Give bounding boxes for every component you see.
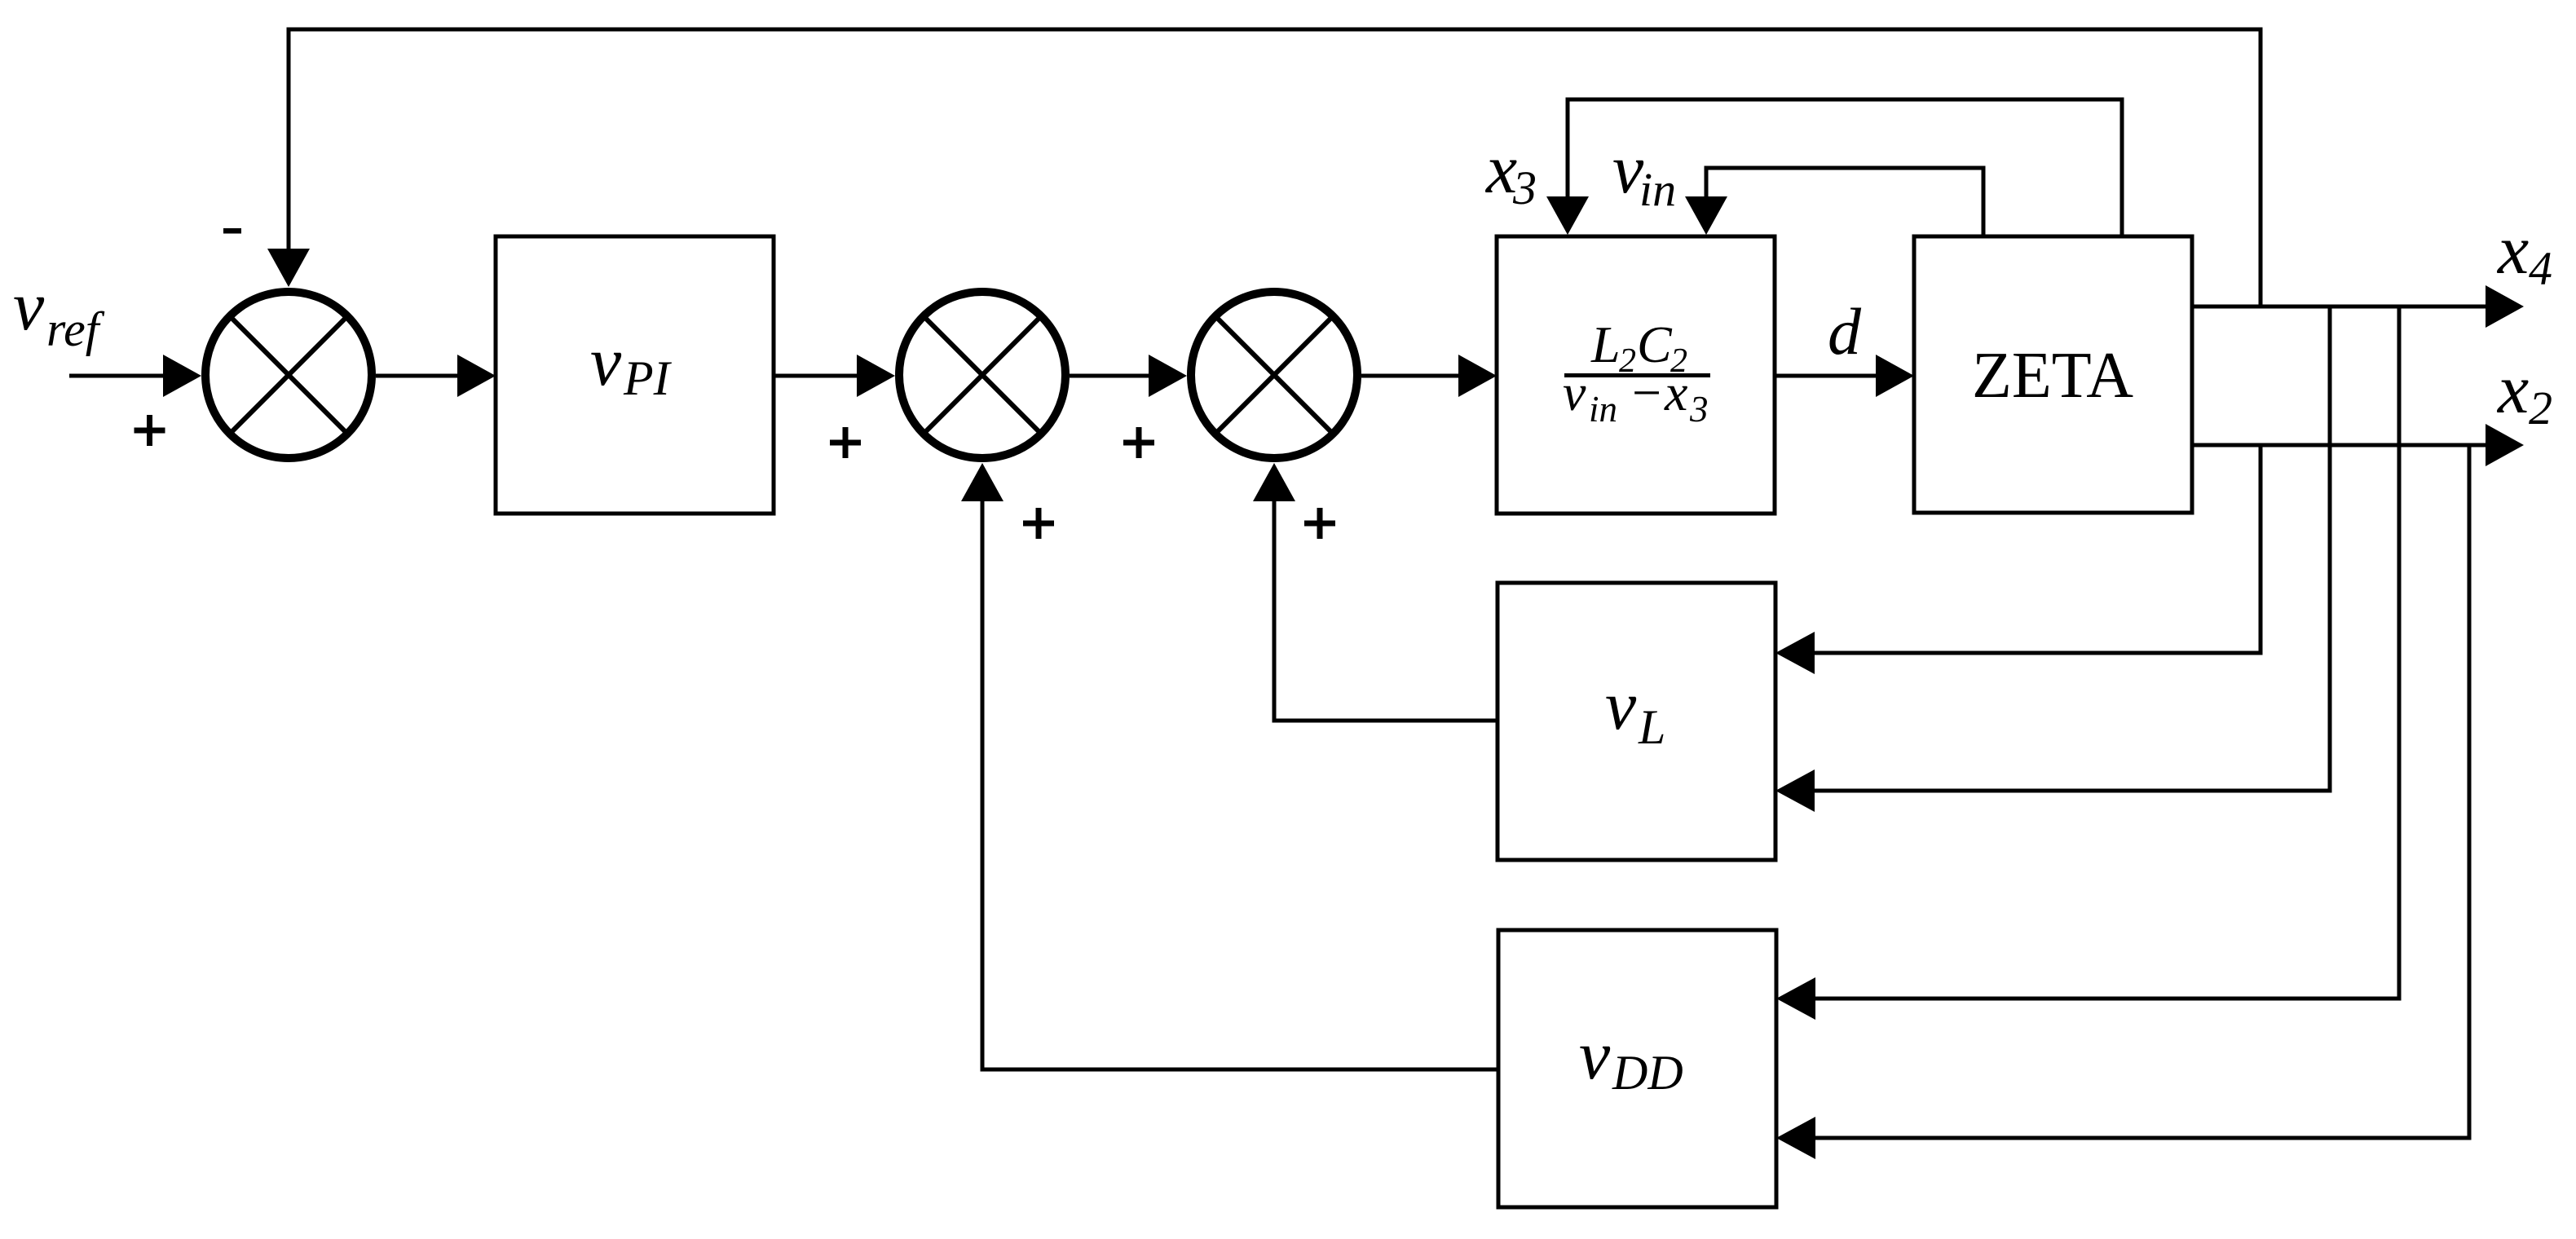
label x2 bbox=[2496, 350, 2552, 434]
svg-text:x: x bbox=[2496, 210, 2529, 289]
wire: vDD output to S2 bottom bbox=[982, 499, 1498, 1069]
svg-text:v: v bbox=[1605, 666, 1637, 744]
arrowhead into S3 bottom bbox=[1253, 463, 1295, 501]
wire: vL output to S3 bottom bbox=[1274, 499, 1498, 721]
wire: S1 to vPI bbox=[376, 374, 461, 378]
block L2C2/(vin-x3) bbox=[1497, 236, 1775, 514]
label vin-x3 denominator bbox=[1563, 364, 1709, 430]
label x3 bbox=[1484, 130, 1537, 214]
svg-text:3: 3 bbox=[1689, 389, 1709, 430]
svg-text:in: in bbox=[1589, 389, 1617, 430]
arrowhead x2 output bbox=[2486, 424, 2524, 466]
label L2C2 numerator bbox=[1590, 315, 1687, 380]
wire: L2C2 to ZETA (signal d) bbox=[1775, 374, 1880, 378]
svg-text:ref: ref bbox=[46, 302, 105, 356]
wire: vPI to S2 bbox=[774, 374, 861, 378]
summing junction S2 bbox=[899, 292, 1065, 458]
svg-text:3: 3 bbox=[1512, 161, 1537, 214]
svg-text:x: x bbox=[1664, 364, 1687, 421]
svg-text:L: L bbox=[1638, 700, 1665, 754]
wire: x2 tee down to vL upper input bbox=[1813, 445, 2261, 653]
arrowhead vin into L2C2 top bbox=[1685, 196, 1727, 235]
svg-text:−: − bbox=[1632, 364, 1661, 421]
arrowhead into vPI bbox=[457, 355, 496, 397]
arrowhead x4 output bbox=[2486, 285, 2524, 328]
arrowhead into vL lower input bbox=[1775, 769, 1815, 812]
label - at S1 feedback input bbox=[223, 228, 241, 234]
summing junction S3 bbox=[1191, 292, 1357, 458]
arrowhead into S2 bottom bbox=[961, 463, 1003, 501]
label x4 bbox=[2496, 210, 2552, 295]
arrowhead into ZETA bbox=[1876, 355, 1914, 397]
wire: x4 feedback top line into S1 bbox=[289, 29, 2261, 306]
arrowhead into S3 bbox=[1149, 355, 1187, 397]
label + at S2 left input bbox=[830, 427, 861, 458]
wire: x4 output bbox=[2192, 305, 2486, 309]
wire: x3 feedback from ZETA top to L2C2 top bbox=[1568, 99, 2122, 235]
label + at S3 bottom input bbox=[1304, 508, 1335, 539]
block vDD bbox=[1498, 930, 1776, 1207]
wire: vin feedback from ZETA top to L2C2 top bbox=[1706, 168, 1983, 235]
svg-text:x: x bbox=[2496, 350, 2529, 428]
label vDD bbox=[1579, 1016, 1683, 1100]
label vL bbox=[1605, 666, 1665, 754]
wire: v_ref input bbox=[69, 374, 167, 378]
block vPI bbox=[496, 236, 774, 514]
wire: S3 to L2C2 block bbox=[1361, 374, 1462, 378]
fraction bar bbox=[1564, 373, 1710, 377]
arrowhead x3 into L2C2 top bbox=[1546, 196, 1589, 235]
arrowhead into summing junction S1 bbox=[163, 355, 201, 397]
wire: S2 to S3 bbox=[1070, 374, 1153, 378]
arrowhead into vDD upper input bbox=[1776, 977, 1815, 1020]
svg-text:4: 4 bbox=[2529, 242, 2552, 295]
block vL bbox=[1498, 583, 1775, 860]
svg-text:in: in bbox=[1639, 163, 1676, 216]
label vin bbox=[1612, 130, 1676, 216]
svg-text:ZETA: ZETA bbox=[1972, 340, 2133, 412]
wire: x4 tee down to vDD upper input bbox=[1814, 306, 2399, 999]
svg-text:L: L bbox=[1590, 315, 1621, 373]
block ZETA bbox=[1914, 236, 2192, 513]
label v_ref bbox=[13, 267, 105, 356]
arrowhead into vL upper input bbox=[1775, 632, 1815, 674]
arrowhead into S1 top bbox=[267, 249, 310, 287]
svg-text:v: v bbox=[1563, 364, 1586, 421]
svg-text:2: 2 bbox=[2529, 381, 2552, 434]
summing junction S1 bbox=[205, 292, 372, 458]
svg-text:PI: PI bbox=[623, 351, 673, 405]
arrowhead into vDD lower input bbox=[1776, 1117, 1815, 1159]
wire: x4 tee down to vL lower input bbox=[1813, 306, 2330, 791]
label + at S1 input bbox=[135, 415, 165, 446]
label + at S2 bottom input bbox=[1023, 508, 1054, 539]
svg-text:v: v bbox=[13, 267, 45, 345]
svg-text:v: v bbox=[590, 322, 622, 400]
label vPI bbox=[590, 322, 673, 405]
wire: x2 output bbox=[2192, 443, 2486, 448]
arrowhead into L2C2 block bbox=[1458, 355, 1497, 397]
svg-text:DD: DD bbox=[1612, 1046, 1683, 1100]
svg-text:v: v bbox=[1579, 1016, 1611, 1094]
arrowhead into S2 bbox=[857, 355, 895, 397]
wire: x2 tee down to vDD lower input bbox=[1814, 445, 2469, 1138]
svg-text:d: d bbox=[1828, 294, 1862, 368]
label + at S3 left input bbox=[1123, 427, 1154, 458]
